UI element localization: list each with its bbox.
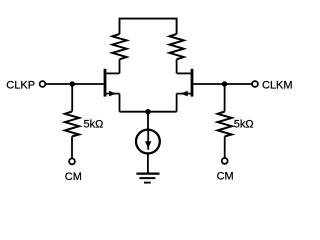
wire: R1 bottom to CM terminal: [71, 136, 73, 158]
node: junction dot on CLKM wire: [222, 81, 227, 86]
resistor RL2 (right load): [170, 34, 184, 59]
ground symbol bottom bar: [144, 182, 151, 184]
terminal CLKP: [40, 81, 46, 87]
svg-text:5kΩ: 5kΩ: [84, 119, 104, 131]
transistor Q1 drain lead: [106, 72, 119, 74]
transistor Q1 body bar: [104, 69, 107, 97]
ground symbol middle bar: [139, 177, 155, 179]
terminal CM right: [222, 158, 228, 164]
current source I1 arrowhead: [145, 141, 151, 148]
wire: Q2 source down to tail rail: [176, 94, 178, 112]
svg-text:CM: CM: [217, 171, 234, 183]
node: junction dot on CLKP wire: [70, 81, 75, 86]
transistor Q1 emitter arrow: [109, 91, 116, 97]
wire: tail node down to current source: [147, 112, 149, 130]
transistor Q2 body bar: [191, 69, 194, 97]
svg-text:CM: CM: [65, 171, 82, 183]
wire: right node down to R2: [224, 84, 226, 112]
wire: CLKP gate wire: [45, 83, 103, 85]
wire: current source to ground: [147, 154, 149, 174]
wire: top rail with stubs down to load resistors: [120, 19, 177, 34]
wire: RL2 bottom to Q2 drain corner: [176, 59, 178, 73]
terminal CM left: [69, 159, 75, 165]
resistor R2 (5k ohm right): [218, 112, 232, 137]
wire: RL1 bottom to Q1 drain corner: [119, 59, 121, 73]
svg-text:5kΩ: 5kΩ: [234, 119, 254, 131]
terminal CLKM: [252, 81, 258, 87]
svg-text:CLKP: CLKP: [6, 79, 35, 91]
current source I1 arrow shaft: [147, 130, 149, 150]
transistor Q2 drain lead: [177, 72, 191, 74]
resistor RL1 (left load): [112, 34, 126, 59]
ground symbol top bar: [136, 172, 159, 174]
node: tail junction dot: [145, 109, 150, 114]
svg-text:CLKM: CLKM: [262, 79, 293, 91]
wire: tail rail: [120, 111, 177, 113]
current source I1 circle: [136, 130, 160, 154]
wire: CLKM gate wire: [193, 83, 252, 85]
transistor Q2 emitter arrow: [181, 91, 188, 97]
wire: R2 bottom to CM terminal: [224, 136, 226, 157]
transistor Q1 source lead: [106, 93, 119, 95]
transistor Q2 source lead: [177, 93, 191, 95]
wire: Q1 source down to tail rail: [119, 94, 121, 112]
resistor R1 (5k ohm left): [65, 112, 79, 137]
wire: left node down to R1: [71, 84, 73, 112]
